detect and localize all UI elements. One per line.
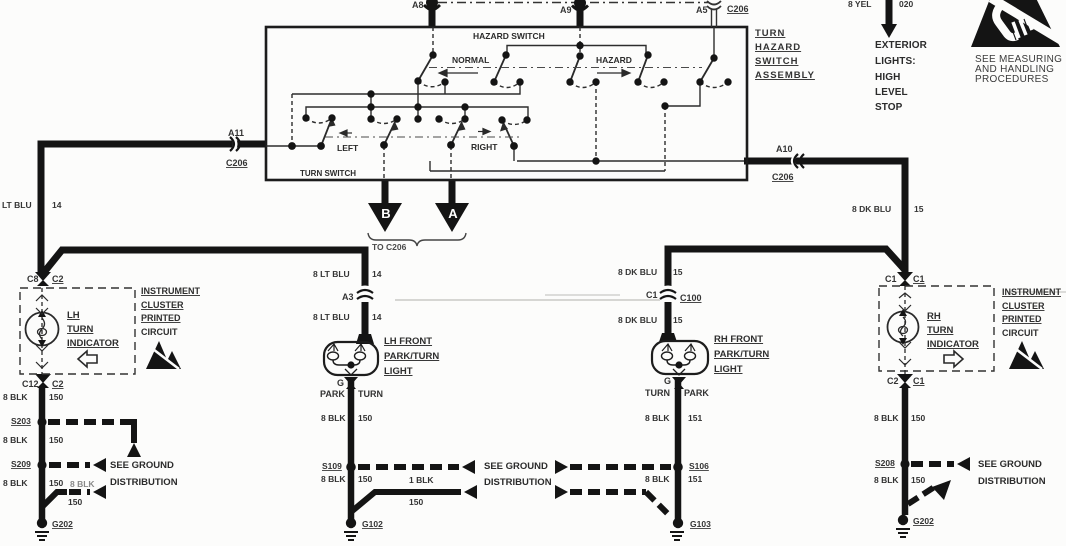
- svg-text:LIGHT: LIGHT: [714, 364, 743, 375]
- svg-text:CIRCUIT: CIRCUIT: [1002, 328, 1039, 338]
- svg-text:G202: G202: [913, 516, 934, 526]
- svg-text:C2: C2: [52, 274, 64, 284]
- svg-text:8 DK BLU: 8 DK BLU: [852, 204, 891, 214]
- svg-text:A3: A3: [342, 292, 354, 302]
- svg-text:151: 151: [688, 413, 702, 423]
- svg-text:15: 15: [914, 204, 924, 214]
- svg-text:LT BLU: LT BLU: [2, 200, 32, 210]
- svg-text:C100: C100: [680, 293, 702, 303]
- svg-text:1 BLK: 1 BLK: [409, 475, 434, 485]
- svg-text:LIGHT: LIGHT: [384, 366, 413, 377]
- svg-text:150: 150: [358, 413, 372, 423]
- svg-text:G102: G102: [362, 519, 383, 529]
- svg-text:DISTRIBUTION: DISTRIBUTION: [978, 476, 1046, 487]
- svg-text:INDICATOR: INDICATOR: [927, 339, 979, 350]
- svg-text:A9: A9: [560, 5, 572, 15]
- svg-text:PROCEDURES: PROCEDURES: [975, 74, 1049, 85]
- svg-text:S109: S109: [322, 461, 342, 471]
- svg-text:RH: RH: [927, 311, 941, 322]
- svg-text:A5: A5: [696, 5, 708, 15]
- svg-text:C1: C1: [885, 274, 897, 284]
- svg-text:150: 150: [911, 475, 925, 485]
- svg-text:LEVEL: LEVEL: [875, 87, 908, 98]
- svg-text:8 DK BLU: 8 DK BLU: [618, 315, 657, 325]
- svg-text:CIRCUIT: CIRCUIT: [141, 327, 178, 337]
- svg-text:TURN: TURN: [927, 325, 954, 336]
- svg-text:SEE GROUND: SEE GROUND: [110, 460, 174, 471]
- svg-text:8 BLK: 8 BLK: [874, 413, 899, 423]
- svg-text:C12: C12: [22, 379, 39, 389]
- svg-text:DISTRIBUTION: DISTRIBUTION: [484, 477, 552, 488]
- svg-text:S106: S106: [689, 461, 709, 471]
- svg-text:150: 150: [409, 497, 423, 507]
- svg-text:C2: C2: [52, 379, 64, 389]
- svg-text:INDICATOR: INDICATOR: [67, 338, 119, 349]
- svg-text:8 LT BLU: 8 LT BLU: [313, 312, 350, 322]
- svg-text:TURN: TURN: [755, 28, 785, 39]
- svg-text:14: 14: [372, 269, 382, 279]
- svg-text:S209: S209: [11, 459, 31, 469]
- svg-text:150: 150: [49, 478, 63, 488]
- svg-text:150: 150: [68, 497, 82, 507]
- svg-text:A8: A8: [412, 0, 424, 10]
- svg-text:150: 150: [911, 413, 925, 423]
- svg-text:150: 150: [49, 435, 63, 445]
- svg-text:8 BLK: 8 BLK: [645, 413, 670, 423]
- svg-text:14: 14: [52, 200, 62, 210]
- svg-text:RIGHT: RIGHT: [471, 142, 498, 152]
- svg-text:C1: C1: [646, 290, 658, 300]
- svg-text:A10: A10: [776, 144, 793, 154]
- svg-text:8 BLK: 8 BLK: [874, 475, 899, 485]
- svg-text:PARK/TURN: PARK/TURN: [384, 351, 439, 362]
- svg-text:15: 15: [673, 267, 683, 277]
- svg-text:15: 15: [673, 315, 683, 325]
- svg-text:14: 14: [372, 312, 382, 322]
- svg-text:150: 150: [49, 392, 63, 402]
- svg-text:ASSEMBLY: ASSEMBLY: [755, 70, 815, 81]
- svg-text:8 YEL: 8 YEL: [848, 0, 871, 9]
- svg-text:8 BLK: 8 BLK: [70, 479, 95, 489]
- svg-text:020: 020: [899, 0, 913, 9]
- svg-text:S203: S203: [11, 416, 31, 426]
- svg-text:B: B: [381, 206, 390, 221]
- svg-text:C206: C206: [772, 172, 794, 182]
- svg-text:LIGHTS:: LIGHTS:: [875, 56, 916, 67]
- svg-text:CLUSTER: CLUSTER: [1002, 301, 1045, 311]
- svg-text:HAZARD: HAZARD: [755, 42, 801, 53]
- svg-text:8 DK BLU: 8 DK BLU: [618, 267, 657, 277]
- svg-text:150: 150: [358, 474, 372, 484]
- svg-text:HIGH: HIGH: [875, 72, 900, 83]
- svg-text:8 BLK: 8 BLK: [3, 478, 28, 488]
- svg-text:STOP: STOP: [875, 102, 903, 113]
- svg-text:PARK: PARK: [320, 389, 345, 399]
- svg-text:S208: S208: [875, 458, 895, 468]
- svg-text:RH FRONT: RH FRONT: [714, 334, 763, 345]
- svg-text:HAZARD: HAZARD: [596, 55, 632, 65]
- svg-text:C1: C1: [913, 274, 925, 284]
- svg-text:8 BLK: 8 BLK: [645, 474, 670, 484]
- svg-text:PRINTED: PRINTED: [1002, 314, 1042, 324]
- svg-text:TURN: TURN: [645, 388, 670, 398]
- svg-text:8 BLK: 8 BLK: [3, 392, 28, 402]
- svg-text:SEE GROUND: SEE GROUND: [484, 461, 548, 472]
- svg-text:PARK: PARK: [684, 388, 709, 398]
- svg-text:C2: C2: [887, 376, 899, 386]
- svg-text:G: G: [664, 376, 671, 386]
- svg-text:CLUSTER: CLUSTER: [141, 300, 184, 310]
- svg-text:C206: C206: [727, 4, 749, 14]
- svg-text:DISTRIBUTION: DISTRIBUTION: [110, 477, 178, 488]
- svg-text:A: A: [448, 206, 458, 221]
- svg-text:A11: A11: [228, 128, 244, 138]
- svg-text:TURN: TURN: [358, 389, 383, 399]
- svg-text:SWITCH: SWITCH: [755, 56, 798, 67]
- svg-text:LH: LH: [67, 310, 80, 321]
- svg-text:C206: C206: [226, 158, 248, 168]
- svg-text:TURN: TURN: [67, 324, 94, 335]
- svg-text:NORMAL: NORMAL: [452, 55, 489, 65]
- svg-text:INSTRUMENT: INSTRUMENT: [141, 286, 200, 296]
- svg-text:SEE GROUND: SEE GROUND: [978, 459, 1042, 470]
- svg-text:8 BLK: 8 BLK: [321, 413, 346, 423]
- svg-text:LEFT: LEFT: [337, 143, 359, 153]
- svg-text:8 BLK: 8 BLK: [321, 474, 346, 484]
- svg-text:PRINTED: PRINTED: [141, 313, 181, 323]
- svg-text:C8: C8: [27, 274, 39, 284]
- svg-text:G202: G202: [52, 519, 73, 529]
- svg-text:LH FRONT: LH FRONT: [384, 336, 432, 347]
- svg-text:INSTRUMENT: INSTRUMENT: [1002, 287, 1061, 297]
- svg-text:G103: G103: [690, 519, 711, 529]
- svg-text:EXTERIOR: EXTERIOR: [875, 40, 928, 51]
- svg-text:8 LT BLU: 8 LT BLU: [313, 269, 350, 279]
- svg-text:PARK/TURN: PARK/TURN: [714, 349, 769, 360]
- svg-text:8 BLK: 8 BLK: [3, 435, 28, 445]
- svg-text:C1: C1: [913, 376, 925, 386]
- svg-text:TO C206: TO C206: [372, 242, 407, 252]
- svg-text:151: 151: [688, 474, 702, 484]
- svg-text:G: G: [337, 378, 344, 388]
- svg-text:HAZARD SWITCH: HAZARD SWITCH: [473, 31, 545, 41]
- svg-text:TURN SWITCH: TURN SWITCH: [300, 169, 356, 178]
